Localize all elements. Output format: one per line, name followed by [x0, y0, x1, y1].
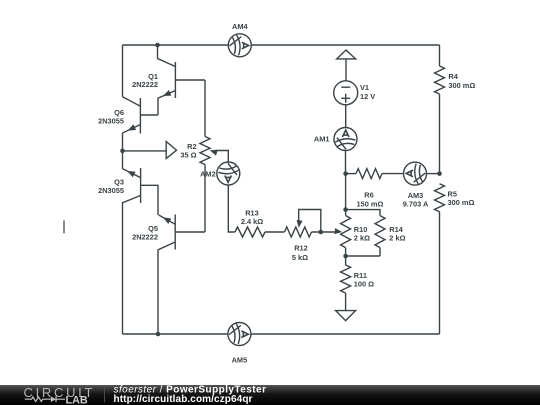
node R6 left junction [343, 171, 348, 176]
svg-text:2N2222: 2N2222 [132, 80, 158, 89]
svg-text:2N3055: 2N3055 [98, 186, 124, 195]
svg-text:R6: R6 [364, 191, 373, 200]
wire V1-AM1 [345, 105, 347, 128]
node emitter-rail junction [156, 332, 161, 337]
node R10 top junction [343, 207, 348, 212]
svg-text:150 mΩ: 150 mΩ [357, 200, 384, 209]
ground [336, 311, 356, 321]
resistor R14 [375, 216, 406, 248]
terminal arrow [166, 142, 176, 159]
wire right rail lower [439, 212, 441, 334]
ammeter AM1 [314, 128, 357, 151]
wire AM3-right rail [427, 173, 440, 175]
transistor Q6 [98, 97, 158, 134]
resistor R4 [435, 66, 476, 94]
wire R12-R10 [312, 231, 336, 233]
wire AM1 junction down to R10 row [345, 174, 347, 210]
node R12 junction [319, 230, 324, 235]
svg-text:100 Ω: 100 Ω [354, 279, 374, 288]
wire R6-AM3 [382, 173, 404, 175]
wire R10/R14 top [346, 210, 380, 216]
transistor Q3 [98, 168, 158, 215]
stray cursor mark [63, 220, 65, 233]
wire R2 branch lower [204, 165, 206, 233]
resistor R10 [341, 216, 370, 248]
footer separator [104, 388, 106, 403]
svg-text:2N2222: 2N2222 [132, 233, 158, 242]
ammeter AM2 [200, 162, 240, 185]
svg-text:2 kΩ: 2 kΩ [389, 234, 405, 243]
svg-text:AM1: AM1 [314, 135, 330, 144]
transistor Q5 [132, 215, 205, 335]
svg-text:2.4 kΩ: 2.4 kΩ [241, 217, 263, 226]
svg-text:R4: R4 [448, 72, 458, 81]
wire left rail middle [122, 133, 124, 169]
wire R2 wiper [215, 151, 228, 163]
svg-text:9.703 A: 9.703 A [403, 199, 429, 208]
wire R10/R14 bottom [346, 248, 380, 256]
svg-text:300 mΩ: 300 mΩ [448, 198, 475, 207]
wire AM2 bottom [228, 185, 235, 232]
R10 wiper arrowhead [334, 228, 342, 234]
logo zigzag [25, 396, 65, 402]
wire R13-R12 [265, 231, 285, 233]
svg-text:http://circuitlab.com/czp64qr: http://circuitlab.com/czp64qr [114, 394, 253, 405]
resistor R12 [285, 227, 312, 262]
wire left rail lower [122, 202, 124, 334]
svg-text:V1: V1 [360, 83, 369, 92]
power flag V1 [337, 50, 356, 59]
svg-text:AM5: AM5 [232, 356, 248, 365]
wire AM1 bottom [345, 151, 347, 174]
svg-text:AM4: AM4 [232, 22, 248, 31]
svg-text:5 kΩ: 5 kΩ [292, 253, 308, 262]
svg-text:300 mΩ: 300 mΩ [448, 81, 475, 90]
wire R12 wiper loop [299, 210, 321, 233]
resistor R2 [180, 137, 210, 165]
svg-text:2N3055: 2N3055 [98, 116, 124, 125]
svg-text:AM2: AM2 [200, 170, 216, 179]
wire flag to V1 [345, 59, 347, 81]
ammeter AM4 [228, 22, 251, 57]
svg-text:LAB: LAB [66, 395, 88, 405]
transistor Q1 [132, 62, 205, 115]
node right rail junction [437, 171, 442, 176]
wire bottom rail [123, 333, 440, 335]
resistor R11 [341, 265, 375, 293]
node R10 bottom junction [343, 254, 348, 259]
wire to R11 [345, 256, 347, 265]
resistor R5 [435, 184, 475, 212]
svg-text:2 kΩ: 2 kΩ [354, 234, 370, 243]
wire top rail [123, 44, 440, 46]
svg-text:35 Ω: 35 Ω [180, 151, 196, 160]
ammeter AM3 [403, 162, 429, 208]
resistor R13 [235, 208, 265, 237]
wire R11 to ground [345, 293, 347, 311]
node Q1 collector junction [155, 43, 160, 48]
source V1 [334, 81, 376, 105]
ammeter AM5 [228, 323, 251, 365]
wire to terminal arrow [123, 150, 167, 152]
resistor R6 [356, 169, 384, 209]
wire R2 branch upper [204, 80, 206, 137]
wire right rail upper [439, 45, 441, 174]
wire Q1 collector stub [158, 45, 176, 67]
svg-text:R12: R12 [294, 244, 308, 253]
wire left rail upper [122, 45, 124, 97]
wire to R6 [346, 173, 356, 175]
svg-text:12 V: 12 V [360, 92, 375, 101]
node base junction [120, 149, 125, 154]
